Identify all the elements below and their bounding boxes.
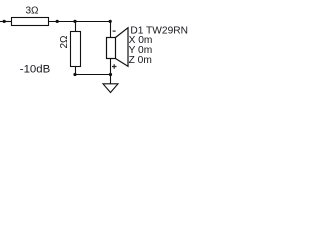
svg-text:3Ω: 3Ω	[26, 5, 40, 16]
polarity label minus	[113, 30, 116, 32]
polarity label plus	[112, 64, 117, 68]
resistor R1 3Ω horizontal body	[12, 18, 49, 26]
speaker driver D1 cone	[116, 28, 129, 67]
junction dot at ground tap	[109, 73, 112, 76]
junction dot at R2 tap	[73, 20, 76, 23]
resistor R2 2Ω vertical body	[71, 32, 81, 67]
wire: down to ground symbol	[110, 75, 112, 85]
corner junction dot above driver	[109, 20, 112, 23]
wire: bottom ground rail	[75, 74, 111, 76]
ground symbol	[103, 84, 118, 93]
svg-text:2Ω: 2Ω	[59, 35, 70, 49]
node: input terminal junction dot	[3, 20, 6, 23]
speaker driver D1 magnet body	[107, 38, 116, 59]
wire: input lead to R1	[0, 21, 12, 23]
wire: driver plus terminal to ground rail	[110, 59, 112, 75]
wire: R1 to driver branch	[49, 21, 111, 23]
svg-text:Z 0m: Z 0m	[129, 55, 152, 66]
svg-text:-10dB: -10dB	[20, 63, 50, 75]
junction dot bottom rail left	[73, 73, 76, 76]
wire: down to driver minus terminal	[110, 22, 112, 38]
wire: tap down to R2 top	[75, 22, 77, 32]
junction dot after R1	[56, 20, 59, 23]
wire: R2 bottom to ground rail	[75, 67, 77, 75]
